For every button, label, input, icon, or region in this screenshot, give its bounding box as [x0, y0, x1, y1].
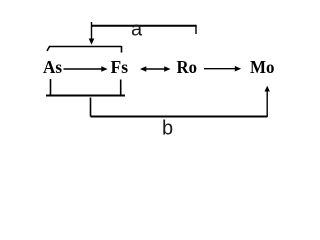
svg-text:Mo: Mo — [250, 57, 275, 77]
bracket b: bottom horizontal — [91, 116, 268, 118]
svg-text:b: b — [162, 118, 173, 140]
bracket b: right vertical arrow shaft — [266, 91, 268, 117]
As-Fs bottom bracket left tick — [50, 79, 52, 96]
bracket a: top horizontal line — [91, 25, 196, 27]
As-Fs top brace — [47, 47, 122, 52]
arrow Ro to Mo head — [235, 66, 241, 72]
double arrow Fs-Ro shaft — [145, 68, 165, 70]
As-Fs bottom bracket horizontal — [46, 95, 125, 97]
bracket a: left vertical arrow shaft — [91, 22, 93, 39]
svg-text:Fs: Fs — [111, 57, 129, 77]
bracket b: left vertical — [90, 98, 92, 117]
bracket a: right end tick — [195, 25, 197, 34]
double arrow left head — [140, 66, 146, 72]
arrow Ro to Mo shaft — [204, 68, 236, 70]
arrow As to Fs head — [101, 66, 107, 72]
svg-text:a: a — [131, 19, 143, 41]
As-Fs bottom bracket right tick — [120, 80, 122, 96]
arrow As to Fs shaft — [64, 68, 103, 70]
double arrow right head — [164, 66, 170, 72]
svg-text:As: As — [43, 57, 62, 77]
bracket b: up arrowhead — [265, 86, 270, 92]
bracket a: down arrowhead — [89, 39, 95, 45]
As-Fs top brace right tick — [121, 46, 123, 53]
svg-text:Ro: Ro — [177, 57, 198, 77]
